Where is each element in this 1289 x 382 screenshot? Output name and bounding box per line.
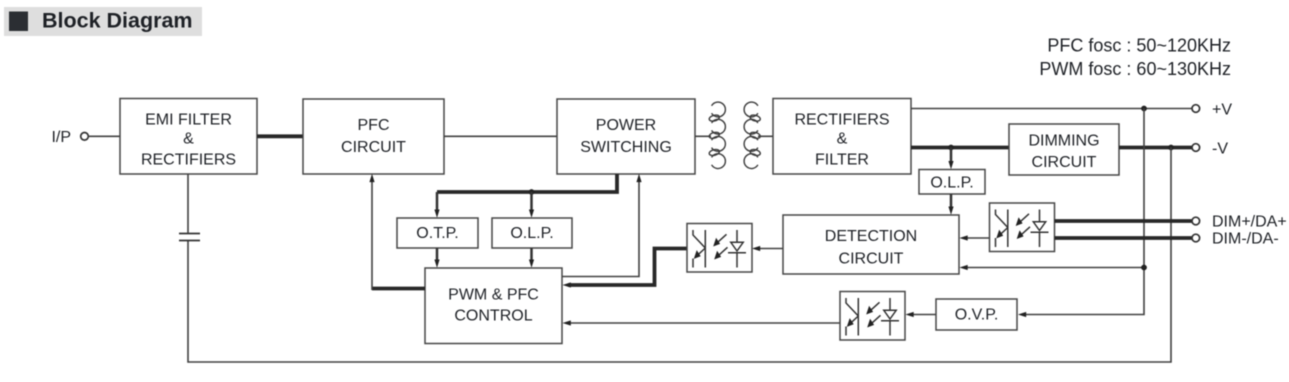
wire opto1 to PWM (thick, arrow) (568, 249, 687, 286)
block RECTIFIERS & FILTER (773, 99, 911, 175)
wire OLP to PWM (arrow) (530, 248, 533, 262)
wire I/P to EMI (88, 135, 120, 137)
opto-isolator U1 (PWM feedback) (687, 224, 752, 273)
transformer T1 secondary winding (744, 102, 761, 168)
block O.V.P. (936, 299, 1017, 330)
node -V feedback (1168, 145, 1174, 151)
wire OTP to PWM (arrow) (436, 248, 439, 262)
wire DIMMING to -V (1119, 146, 1192, 150)
node on +V rail (1141, 106, 1147, 112)
wire opto2 to DIM- (1055, 236, 1192, 240)
terminal +V (1192, 105, 1200, 113)
wire RECTIFIERS to DIMMING (thick -V rail) (911, 146, 1009, 150)
svg-text:O.L.P.: O.L.P. (930, 175, 973, 192)
svg-text:PWM fosc : 60~130KHz: PWM fosc : 60~130KHz (1039, 59, 1231, 79)
wire down to OLP left (arrow) (530, 192, 533, 212)
wire PFC to POWER SWITCHING (444, 135, 557, 137)
title bar (4, 7, 202, 36)
svg-text:FILTER: FILTER (815, 152, 869, 169)
block PFC CIRCUIT (303, 99, 444, 174)
wire PWM to PFC feedback (thick then up arrow) (372, 287, 425, 291)
wire EMI to PFC (thick) (257, 134, 303, 138)
svg-text:O.T.P.: O.T.P. (416, 225, 458, 242)
block EMI FILTER & RECTIFIERS (120, 99, 257, 175)
svg-text:O.V.P.: O.V.P. (955, 307, 999, 324)
svg-text:PWM & PFC: PWM & PFC (448, 286, 539, 303)
node OLP branch (529, 189, 535, 195)
wire down to OTP (arrow) (436, 192, 439, 212)
wire -V node down to bottom rail and to capacitor (188, 148, 1171, 363)
block PWM & PFC CONTROL (425, 268, 562, 344)
wire RECTIFIERS to +V (911, 108, 1192, 110)
transformer T1 primary winding (709, 102, 726, 168)
wire OVP to opto3 (arrow) (910, 314, 936, 316)
capacitor C1 plates (179, 240, 200, 242)
block O.L.P. (output) (919, 170, 985, 195)
wire -V node down to OLP (arrow) (950, 148, 953, 163)
svg-text:CIRCUIT: CIRCUIT (341, 139, 406, 156)
wire opto2 to DIM+ (1055, 219, 1192, 223)
svg-text:I/P: I/P (51, 129, 71, 146)
terminal DIM- (1192, 234, 1200, 242)
terminal I/P (81, 133, 89, 141)
node -V to OLP (948, 145, 954, 151)
block O.T.P. (397, 218, 478, 248)
svg-text:POWER: POWER (596, 117, 656, 134)
block POWER SWITCHING (557, 99, 695, 174)
svg-text:Block Diagram: Block Diagram (42, 9, 193, 33)
svg-text:CIRCUIT: CIRCUIT (1032, 154, 1097, 171)
svg-text:-V: -V (1212, 141, 1228, 158)
svg-text:DIM-/DA-: DIM-/DA- (1212, 231, 1279, 248)
svg-text:CONTROL: CONTROL (454, 307, 532, 324)
wire OLP down to DETECTION (arrow) (950, 194, 953, 208)
svg-text:DETECTION: DETECTION (825, 228, 917, 245)
opto-isolator U2 (dimming interface) (990, 203, 1055, 252)
wire opto3 to PWM (arrow) (568, 322, 840, 324)
wire POWER bottom thick L to OTP/OLP (437, 174, 617, 192)
block O.L.P. (primary) (492, 218, 572, 248)
wire opto2 to DETECTION (arrow) (964, 237, 990, 239)
svg-text:RECTIFIERS: RECTIFIERS (141, 152, 236, 169)
node detection branch (1141, 265, 1147, 271)
svg-text:PFC fosc : 50~120KHz: PFC fosc : 50~120KHz (1047, 36, 1231, 56)
svg-text:+V: +V (1212, 102, 1232, 119)
terminal -V (1192, 144, 1200, 152)
wire capacitor to EMI bottom (187, 174, 189, 233)
wire +V node down and into OVP (arrow) (1023, 109, 1144, 315)
svg-text:&: & (183, 131, 194, 148)
svg-text:SWITCHING: SWITCHING (580, 139, 672, 156)
svg-text:RECTIFIERS: RECTIFIERS (794, 111, 889, 128)
wire POWER to transformer (695, 135, 711, 137)
block DIMMING CIRCUIT (1009, 124, 1119, 175)
wire DETECTION to opto1 (arrow) (757, 248, 783, 250)
svg-text:EMI FILTER: EMI FILTER (145, 111, 232, 128)
svg-text:DIM+/DA+: DIM+/DA+ (1212, 214, 1287, 231)
svg-text:DIMMING: DIMMING (1028, 132, 1099, 149)
block DETECTION CIRCUIT (783, 215, 959, 274)
svg-text:&: & (837, 131, 848, 148)
svg-text:O.L.P.: O.L.P. (510, 225, 553, 242)
title square bullet (9, 12, 28, 32)
svg-text:PFC: PFC (358, 117, 390, 134)
opto-isolator U3 (OVP feedback) (840, 292, 905, 341)
wire transformer to RECTIFIERS (758, 135, 773, 137)
wire PWM to POWER switching (up arrow) (562, 178, 639, 277)
terminal DIM+ (1192, 217, 1200, 225)
wire v1 node to DETECTION (arrow) (964, 267, 1144, 269)
svg-text:CIRCUIT: CIRCUIT (839, 250, 904, 267)
